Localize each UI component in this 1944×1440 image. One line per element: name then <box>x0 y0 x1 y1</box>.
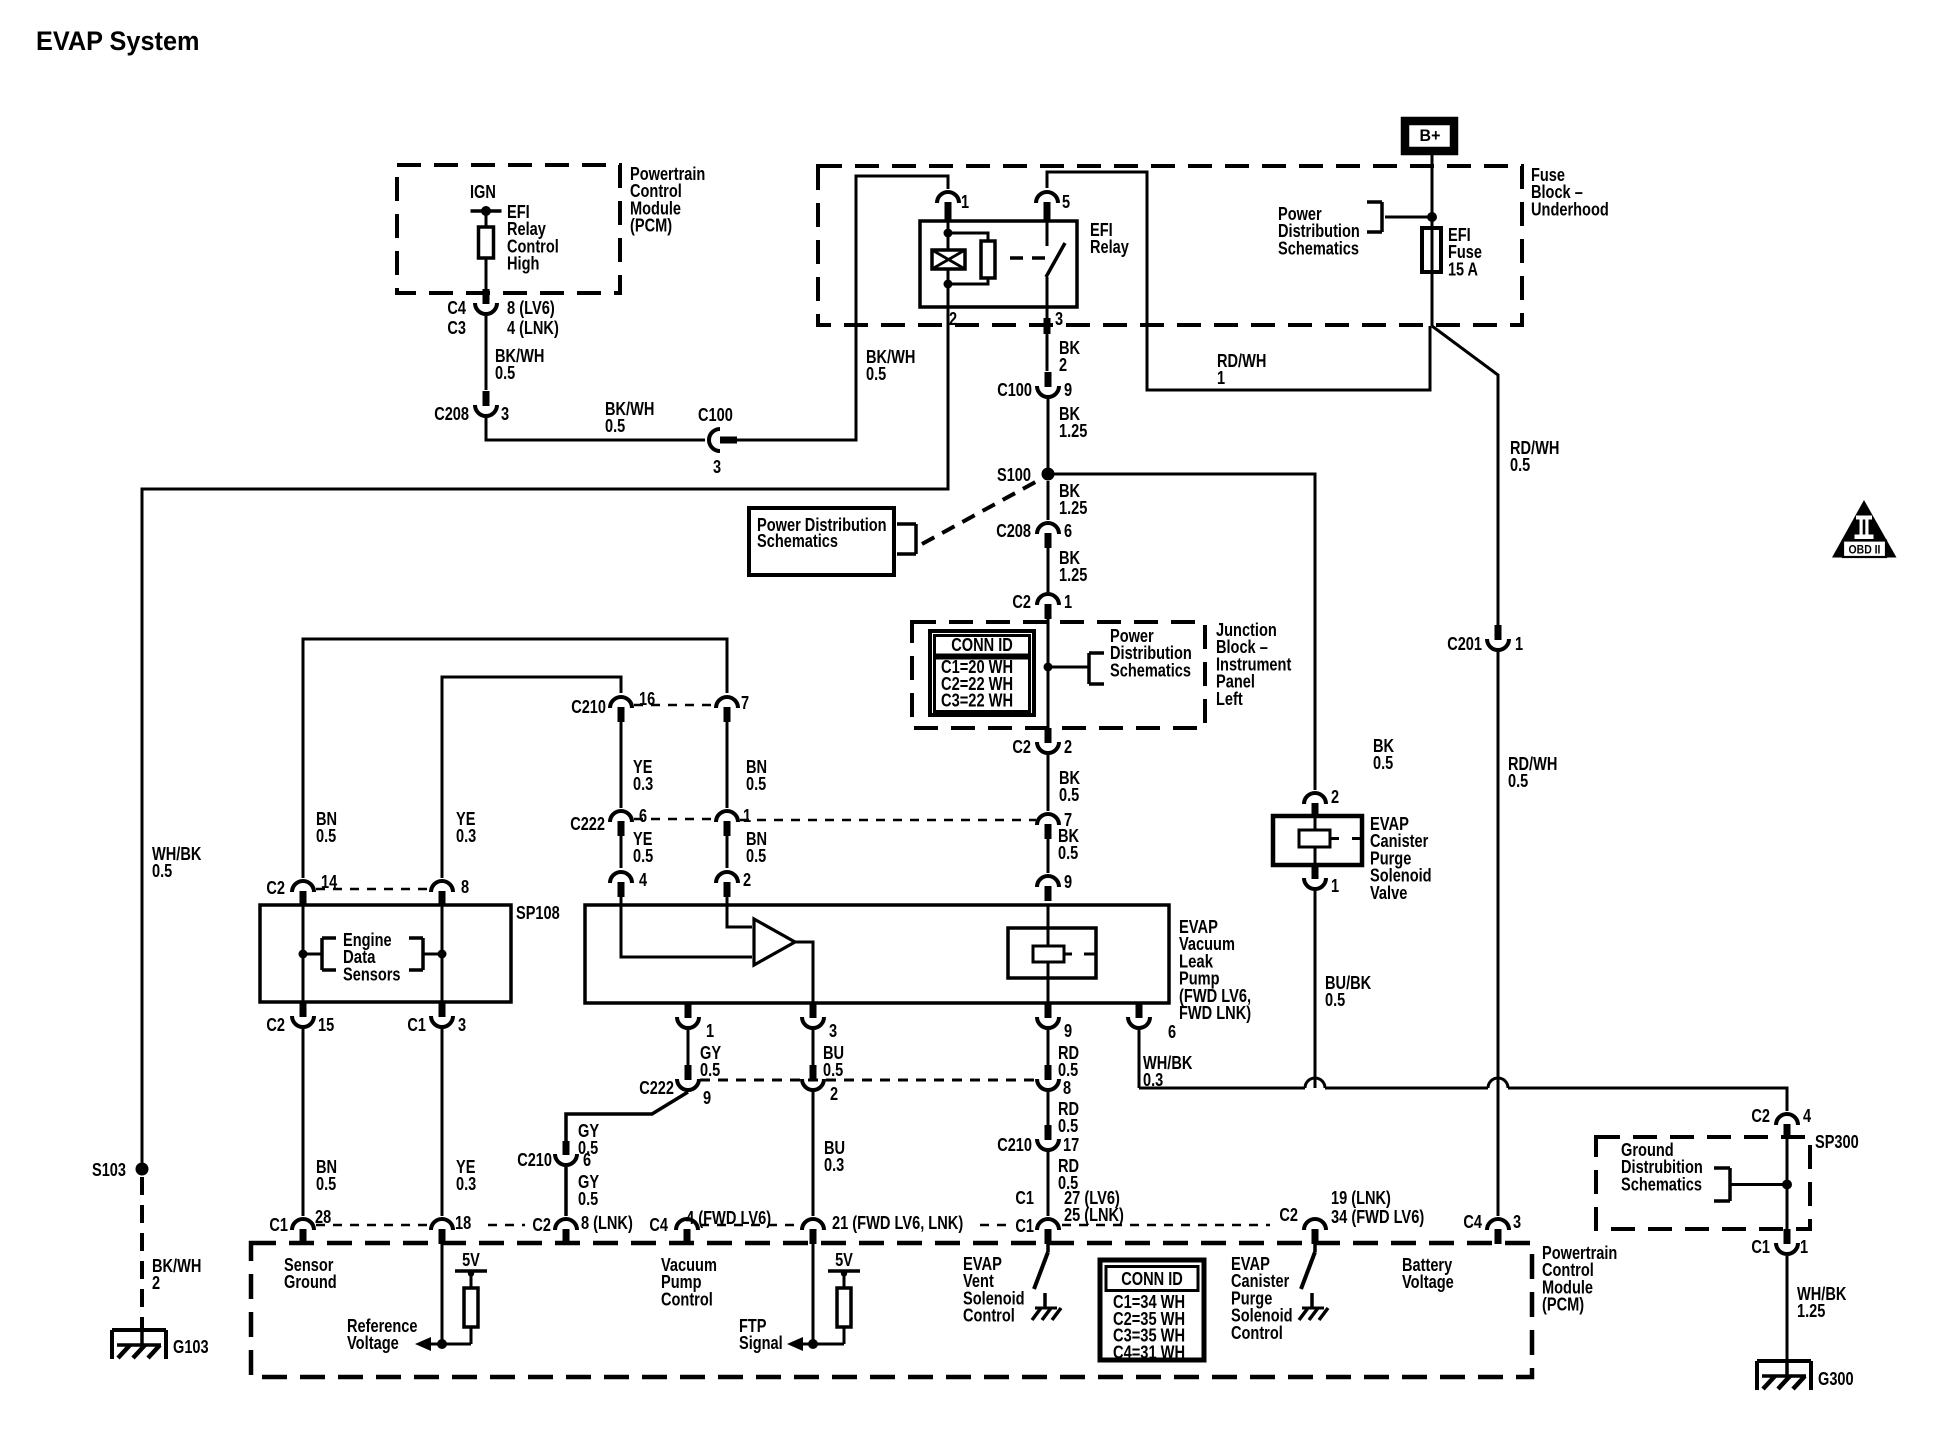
label Powertrain Control Module (PCM) bottom <box>1542 1243 1617 1315</box>
svg-text:C2: C2 <box>1012 592 1031 612</box>
connector purge valve pin 2 <box>1304 793 1326 818</box>
connector C2 pin 8 (LNK) <box>555 1219 577 1244</box>
wire RD/WH 0.5 diagonal from fuse block <box>1432 326 1498 375</box>
relay coil symbol (box with X) <box>932 250 965 269</box>
svg-text:1: 1 <box>1800 1237 1808 1257</box>
connector C222 pin 2 (lower) <box>802 1065 824 1090</box>
module PCM top (Powertrain Control Module) dashed box <box>397 165 620 293</box>
svg-text:19 (LNK): 19 (LNK) <box>1331 1188 1391 1208</box>
relay link dashed <box>1010 256 1046 260</box>
svg-text:Left: Left <box>1216 689 1243 709</box>
label 9 <box>1064 872 1072 892</box>
connector relay pin 5 <box>1036 192 1058 220</box>
svg-text:C210: C210 <box>997 1135 1032 1155</box>
label WH/BK 0.3 <box>1143 1053 1192 1090</box>
label EVAP Canister Purge Solenoid Control <box>1231 1254 1293 1343</box>
svg-text:2: 2 <box>1331 787 1339 807</box>
svg-text:1: 1 <box>706 1021 714 1041</box>
label RD 0.5 <box>1058 1043 1079 1080</box>
connector pump pin 2 <box>716 872 738 897</box>
label BN 0.5 <box>746 757 767 794</box>
svg-text:C208: C208 <box>996 521 1031 541</box>
svg-text:C1: C1 <box>407 1015 426 1035</box>
op-amp pump amplifier <box>754 919 795 965</box>
svg-text:8 (LNK): 8 (LNK) <box>581 1213 633 1233</box>
svg-text:Ground: Ground <box>284 1272 337 1292</box>
svg-text:High: High <box>507 254 539 274</box>
label C2 1 <box>1012 592 1072 612</box>
connector C210 pin 16 <box>610 697 632 722</box>
connector C222 pin 1 <box>716 811 738 836</box>
connector C2 pin 14 <box>292 881 314 906</box>
module EVAP Vacuum Leak Pump box <box>585 905 1169 1003</box>
label BK 1.25 <box>1059 481 1087 518</box>
wire BK 1.25 S100 to C208 <box>1047 481 1050 520</box>
label C4 3 <box>1463 1212 1521 1232</box>
svg-text:6: 6 <box>1064 521 1072 541</box>
svg-text:OBD II: OBD II <box>1849 545 1881 557</box>
label Junction Block - Instrument Panel Left <box>1216 620 1291 709</box>
wire relay pin 2 BK/WH 0.5 long run to S103 <box>142 307 948 1169</box>
label BN 0.5 (lower) <box>316 1157 337 1194</box>
label BN 0.5 (left) <box>316 809 337 846</box>
svg-text:5V: 5V <box>462 1250 480 1270</box>
svg-text:0.5: 0.5 <box>746 774 766 794</box>
label 7 (top row) <box>741 693 749 713</box>
label RD/WH 1 <box>1217 351 1266 388</box>
label WH/BK 0.5 <box>152 844 201 881</box>
label GY 0.5 (above C210-6) <box>578 1121 599 1158</box>
connector pin 21 (FWD LV6, LNK) <box>802 1219 824 1244</box>
svg-text:9: 9 <box>703 1088 711 1108</box>
svg-text:C1: C1 <box>269 1215 288 1235</box>
wire BU 0.3 down to pin 21 <box>812 1092 815 1216</box>
label 18 <box>455 1213 471 1233</box>
wire amplifier output to pin 3 <box>795 942 813 1003</box>
svg-text:(PCM): (PCM) <box>1542 1295 1584 1315</box>
bracket Power Distribution Schematics (junction block) <box>1089 653 1104 684</box>
svg-text:C4: C4 <box>447 298 466 318</box>
svg-text:C2: C2 <box>266 878 285 898</box>
connector C201 pin 1 <box>1487 625 1509 650</box>
svg-text:C3: C3 <box>447 318 466 338</box>
wire BK 0.5 C2-2 to conn 7 <box>1047 755 1050 811</box>
connector pump pin 6 (bottom) <box>1128 1003 1150 1028</box>
switch EVAP vent solenoid driver <box>1034 1244 1048 1289</box>
label 3 <box>1055 309 1063 329</box>
label Reference Voltage <box>347 1316 418 1353</box>
supply 5V (reference) <box>455 1250 487 1288</box>
svg-text:5: 5 <box>1062 192 1070 212</box>
dashed wire BK/WH 2 S103 to G103 <box>140 1177 144 1330</box>
svg-text:C100: C100 <box>698 405 733 425</box>
wire pump pin 4 input <box>621 894 752 957</box>
label 1 <box>961 192 969 212</box>
label 1 (pump bottom) <box>706 1021 714 1041</box>
svg-text:C208: C208 <box>434 404 469 424</box>
svg-text:2: 2 <box>1064 737 1072 757</box>
wire through SP300 box <box>1786 1131 1789 1230</box>
wire pin 21 to FTP node <box>812 1244 815 1344</box>
svg-text:EVAP System: EVAP System <box>36 26 200 56</box>
wire fuse to fuse block edge <box>1431 272 1434 326</box>
connector C208 pin 3 <box>475 391 497 416</box>
wire BK 1.25 to S100 <box>1047 399 1050 474</box>
connector 9 (EVAP pump) <box>1037 876 1059 901</box>
wire YE 0.3 upper loop <box>442 677 621 878</box>
svg-text:1: 1 <box>743 806 751 826</box>
connector 8 (lower) <box>1037 1065 1059 1090</box>
wire tap to bracket <box>1048 666 1089 669</box>
svg-text:C3=22 WH: C3=22 WH <box>941 691 1013 711</box>
bracket left (Engine Data Sensors) <box>322 938 336 970</box>
svg-text:C4=31 WH: C4=31 WH <box>1113 1342 1185 1362</box>
module SP300 Ground Distribution dashed box <box>1596 1137 1810 1229</box>
svg-text:0.5: 0.5 <box>1058 843 1078 863</box>
label RD/WH 0.5 <box>1508 754 1557 791</box>
svg-text:0.3: 0.3 <box>456 1174 476 1194</box>
label 3 <box>713 457 721 477</box>
svg-text:5V: 5V <box>835 1250 853 1270</box>
svg-text:C2: C2 <box>1279 1205 1298 1225</box>
supply 5V (FTP) <box>828 1250 860 1288</box>
svg-text:2: 2 <box>949 309 957 329</box>
label S100 <box>997 465 1031 485</box>
wire RD/WH 0.5 to C201 <box>1497 374 1500 626</box>
connector C210 pin 6 <box>555 1141 577 1165</box>
svg-text:0.3: 0.3 <box>456 826 476 846</box>
wire RD 0.5 conn8 to C210-17 <box>1047 1092 1050 1126</box>
connector C2 pin 2 (below junction block) <box>1037 728 1059 753</box>
svg-text:15 A: 15 A <box>1448 259 1478 279</box>
svg-text:Control: Control <box>1231 1323 1283 1343</box>
relay EFI box <box>920 221 1077 307</box>
label 8 (lower) <box>1063 1078 1071 1098</box>
label YE 0.3 <box>633 757 653 794</box>
wire GY diagonal C222-9 to C210-6 <box>566 1092 688 1141</box>
svg-text:3: 3 <box>829 1021 837 1041</box>
label pin 8 (LV6) 4 (LNK) <box>507 298 559 338</box>
dashed connector line C222-6 to C222-1 <box>634 818 714 821</box>
svg-text:4: 4 <box>639 870 647 890</box>
svg-text:Control: Control <box>661 1289 713 1309</box>
connector C208 pin 6 <box>1037 523 1059 548</box>
label Power Distribution Schematics (S100) <box>757 515 887 551</box>
label 8 (SP108) <box>461 877 469 897</box>
svg-text:SP300: SP300 <box>1815 1132 1859 1152</box>
label YE 0.3 (left) <box>456 809 476 846</box>
svg-text:17: 17 <box>1063 1135 1079 1155</box>
label Powertrain Control Module (PCM) <box>630 164 705 236</box>
bracket Power Distribution Schematics (S100) <box>897 524 916 554</box>
label RD 0.5 (mid) <box>1058 1099 1079 1136</box>
svg-text:C2: C2 <box>532 1215 551 1235</box>
svg-text:C1: C1 <box>1015 1188 1034 1208</box>
label 2 <box>949 309 957 329</box>
wire WH/BK 0.3 pin6 to bus <box>1138 1029 1141 1088</box>
svg-text:C4: C4 <box>1463 1212 1482 1232</box>
connector pump pin 9 (bottom) <box>1037 1003 1059 1028</box>
svg-text:0.5: 0.5 <box>495 363 515 383</box>
dashed connector line bottom row <box>316 1224 1270 1227</box>
svg-text:4 (LNK): 4 (LNK) <box>507 318 559 338</box>
label SP300 <box>1815 1132 1859 1152</box>
svg-text:C2: C2 <box>266 1015 285 1035</box>
svg-text:3: 3 <box>501 404 509 424</box>
connector C4 pin 3 <box>1487 1219 1509 1244</box>
svg-text:2: 2 <box>1059 355 1067 375</box>
connector pump pin 1 (bottom) <box>677 1003 699 1028</box>
connector C100 pin 3 (in-line on horizontal wire) <box>709 429 737 451</box>
connector C1 pin 25/27 <box>1037 1219 1059 1244</box>
resistor reference voltage pull-up <box>464 1288 478 1344</box>
label GY 0.5 <box>700 1043 721 1080</box>
label BK 1.25 <box>1059 548 1087 585</box>
label C100 <box>698 405 733 425</box>
svg-text:34 (FWD LV6): 34 (FWD LV6) <box>1331 1207 1424 1227</box>
fuse F EFI 15A <box>1422 228 1441 272</box>
label GY 0.5 (below C210-6) <box>578 1172 599 1209</box>
label Vacuum Pump Control <box>661 1255 717 1309</box>
label C1 25 (LNK) <box>1015 1205 1124 1236</box>
wire YE 0.3 to pin 18 <box>441 1029 444 1216</box>
label SP108 <box>516 903 560 923</box>
label C4 C3 <box>447 298 466 338</box>
wire BK 1.25 C208 to C2 <box>1047 546 1050 592</box>
label C1 27 (LV6) <box>1015 1188 1120 1208</box>
bracket right (Engine Data Sensors) <box>409 938 423 970</box>
svg-text:SP108: SP108 <box>516 903 560 923</box>
svg-text:3: 3 <box>458 1015 466 1035</box>
svg-text:1: 1 <box>1064 592 1072 612</box>
svg-text:0.5: 0.5 <box>746 846 766 866</box>
junction dot right (SP108) <box>423 950 447 959</box>
svg-text:0.5: 0.5 <box>1373 753 1393 773</box>
label RD 0.5 (lower) <box>1058 1156 1079 1193</box>
label C2 2 <box>1012 737 1072 757</box>
wire BN 0.5 to C1-28 <box>302 1029 305 1216</box>
label C2 8 (LNK) <box>532 1213 632 1235</box>
label G103 <box>173 1337 209 1357</box>
svg-text:6: 6 <box>1168 1022 1176 1042</box>
svg-text:9: 9 <box>1064 1021 1072 1041</box>
label EFI Relay Control High <box>507 202 559 274</box>
label 9 (pump bottom) <box>1064 1021 1072 1041</box>
solenoid pump internal <box>1008 905 1096 1003</box>
svg-text:4 (FWD LV6): 4 (FWD LV6) <box>686 1208 771 1228</box>
svg-text:0.5: 0.5 <box>700 1060 720 1080</box>
wire reference voltage arrow <box>415 1337 471 1351</box>
svg-text:C210: C210 <box>571 697 606 717</box>
dashed connector line C222 row <box>700 1079 1035 1082</box>
svg-text:Underhood: Underhood <box>1531 199 1609 219</box>
ground purge driver <box>1299 1293 1328 1320</box>
svg-text:C2: C2 <box>1751 1106 1770 1126</box>
svg-text:1: 1 <box>1217 368 1225 388</box>
svg-text:9: 9 <box>1064 872 1072 892</box>
wire to Power Distribution bracket <box>1385 216 1432 219</box>
bracket Power Distribution Schematics (fuse) <box>1367 202 1382 232</box>
svg-text:Voltage: Voltage <box>1402 1272 1454 1292</box>
label BK 2 <box>1059 338 1080 375</box>
label Power Distribution Schematics (fuse) <box>1278 204 1360 258</box>
wire BN 0.5 C222-1 down <box>726 833 729 868</box>
label C2 19 (LNK) 34 (FWD LV6) <box>1279 1188 1424 1227</box>
label BK/WH 0.5 <box>866 347 915 384</box>
wire bus WH/BK to SP300 (with hops) <box>1139 1078 1787 1111</box>
connector C2 pin 15 <box>292 1002 314 1027</box>
svg-text:0.5: 0.5 <box>1510 455 1530 475</box>
label Fuse Block - Underhood <box>1531 165 1609 219</box>
svg-text:3: 3 <box>713 457 721 477</box>
label FTP Signal <box>739 1316 783 1353</box>
svg-text:1.25: 1.25 <box>1059 565 1087 585</box>
connector C222 pin 6 <box>610 811 632 836</box>
resistor relay internal <box>981 241 995 278</box>
svg-text:0.5: 0.5 <box>1059 785 1079 805</box>
box Power Distribution Schematics (S100) <box>749 508 894 575</box>
bracket Ground Distribution <box>1714 1168 1730 1201</box>
title <box>36 26 200 56</box>
svg-text:FWD LNK): FWD LNK) <box>1179 1003 1251 1023</box>
label 2 (pump) <box>743 870 751 890</box>
label WH/BK 1.25 <box>1797 1284 1846 1321</box>
ground G300 <box>1757 1359 1811 1390</box>
svg-text:1: 1 <box>961 192 969 212</box>
svg-text:0.5: 0.5 <box>152 861 172 881</box>
label BK 1.25 <box>1059 404 1087 441</box>
module Junction Block dashed box <box>912 622 1205 728</box>
connector 7 (in-line) <box>1037 814 1059 839</box>
svg-text:8: 8 <box>1063 1078 1071 1098</box>
svg-text:C210: C210 <box>517 1150 552 1170</box>
wire BU 0.5 pin3 to C222-2 <box>812 1029 815 1066</box>
svg-text:0.5: 0.5 <box>605 416 625 436</box>
connector C1 pin 1 (G300) <box>1776 1229 1798 1254</box>
wire IGN driver to C4/C3 <box>485 258 488 289</box>
svg-text:0.5: 0.5 <box>823 1060 843 1080</box>
connector purge valve pin 1 <box>1304 865 1326 889</box>
label 1 (C222) <box>743 806 751 826</box>
ground G103 <box>112 1328 166 1359</box>
wire YE through SP108 <box>441 905 444 1002</box>
relay coil circuit <box>944 221 989 307</box>
svg-text:18: 18 <box>455 1213 471 1233</box>
wire GY 0.5 C210-6 down <box>564 1167 568 1216</box>
svg-text:0.3: 0.3 <box>824 1155 844 1175</box>
svg-text:C1: C1 <box>1015 1216 1034 1236</box>
svg-text:Schematics: Schematics <box>1110 660 1191 680</box>
svg-text:6: 6 <box>583 1150 591 1170</box>
svg-text:1: 1 <box>1515 634 1523 654</box>
svg-text:C1: C1 <box>1751 1237 1770 1257</box>
label RD/WH 0.5 <box>1510 438 1559 475</box>
svg-text:2: 2 <box>152 1273 160 1293</box>
wire BU/BK 0.5 purge valve to bus <box>1314 891 1317 1088</box>
label Sensor Ground <box>284 1255 337 1292</box>
junction dot (junction block tap) <box>1044 663 1053 672</box>
connector C100 pin 9 <box>1037 372 1059 397</box>
wire FTP signal arrow <box>787 1337 844 1351</box>
svg-text:Voltage: Voltage <box>347 1333 399 1353</box>
wire BK/WH 0.5 from C208-3 to C100 <box>486 418 705 440</box>
dashed leader S100 to Power Distribution Schematics <box>922 479 1041 544</box>
label BK/WH 0.5 <box>495 346 544 383</box>
svg-text:9: 9 <box>1064 380 1072 400</box>
wire YE 0.5 C222-6 down <box>620 833 623 868</box>
label Ground Distrubition Schematics <box>1621 1140 1703 1194</box>
junction dot at fuse top <box>1427 212 1437 222</box>
svg-text:CONN ID: CONN ID <box>1121 1269 1183 1289</box>
svg-text:C201: C201 <box>1447 634 1482 654</box>
svg-text:G300: G300 <box>1818 1369 1854 1389</box>
svg-text:28: 28 <box>315 1207 331 1227</box>
node SP300 splice dot <box>1782 1180 1792 1190</box>
wire through junction block <box>1047 617 1050 728</box>
svg-text:3: 3 <box>1055 309 1063 329</box>
svg-text:Sensors: Sensors <box>343 964 401 984</box>
relay switch <box>1046 221 1065 307</box>
label BK/WH 2 <box>152 1256 201 1293</box>
connector pump pin 4 <box>610 872 632 897</box>
label BK 0.5 <box>1059 768 1080 805</box>
label C2 14 <box>266 872 337 898</box>
label 21 (FWD LV6, LNK) <box>832 1213 963 1233</box>
svg-text:Valve: Valve <box>1370 883 1407 903</box>
wire RD 0.5 pin9 to conn8 <box>1047 1029 1050 1066</box>
switch EVAP purge solenoid driver <box>1301 1244 1315 1289</box>
label EVAP Canister Purge Solenoid Valve <box>1370 814 1432 903</box>
svg-text:6: 6 <box>639 806 647 826</box>
label 7 <box>1064 810 1072 830</box>
label C100 9 <box>997 380 1072 400</box>
svg-text:(PCM): (PCM) <box>630 216 672 236</box>
dashed connector line C222-1 to conn 7 <box>740 819 1036 822</box>
label 1 <box>1331 876 1339 896</box>
svg-text:2: 2 <box>830 1084 838 1104</box>
wire RD/WH 1 from fuse block to relay pin 5 <box>1047 172 1430 390</box>
wire BN 0.5 7 to C222-1 <box>726 719 729 808</box>
connector relay pin 1 <box>937 192 959 220</box>
wire S100 to EVAP canister purge solenoid valve pin 2 <box>1048 474 1315 790</box>
svg-text:0.5: 0.5 <box>578 1189 598 1209</box>
connector C2 pin 19/34 <box>1304 1219 1326 1244</box>
connector C4/C3 pin 8 (LV6) / 4 (LNK) <box>475 289 497 314</box>
label EFI Relay <box>1090 220 1129 257</box>
connector C1 pin 28 <box>292 1219 314 1244</box>
label C2 15 <box>266 1015 334 1035</box>
svg-text:0.3: 0.3 <box>633 774 653 794</box>
svg-text:Control: Control <box>963 1306 1015 1326</box>
wire YE 0.3 C210-16 to C222-6 <box>620 719 623 808</box>
svg-text:CONN ID: CONN ID <box>951 635 1013 655</box>
dashed connector line C2-14 to 8 <box>316 888 429 891</box>
label Battery Voltage <box>1402 1255 1454 1292</box>
svg-text:1: 1 <box>1331 876 1339 896</box>
node S103 splice <box>136 1163 149 1176</box>
connector C210 pin 17 <box>1037 1125 1059 1150</box>
label BK/WH 0.5 <box>605 399 654 436</box>
net IGN <box>470 182 502 227</box>
svg-text:C222: C222 <box>639 1078 674 1098</box>
label BK 0.5 (purge valve feed) <box>1373 736 1394 773</box>
svg-text:Signal: Signal <box>739 1333 783 1353</box>
label C2 4 <box>1751 1106 1811 1126</box>
label 3 (pump bottom) <box>829 1021 837 1041</box>
svg-text:8: 8 <box>461 877 469 897</box>
svg-text:S103: S103 <box>92 1160 126 1180</box>
label BU 0.3 <box>824 1138 845 1175</box>
